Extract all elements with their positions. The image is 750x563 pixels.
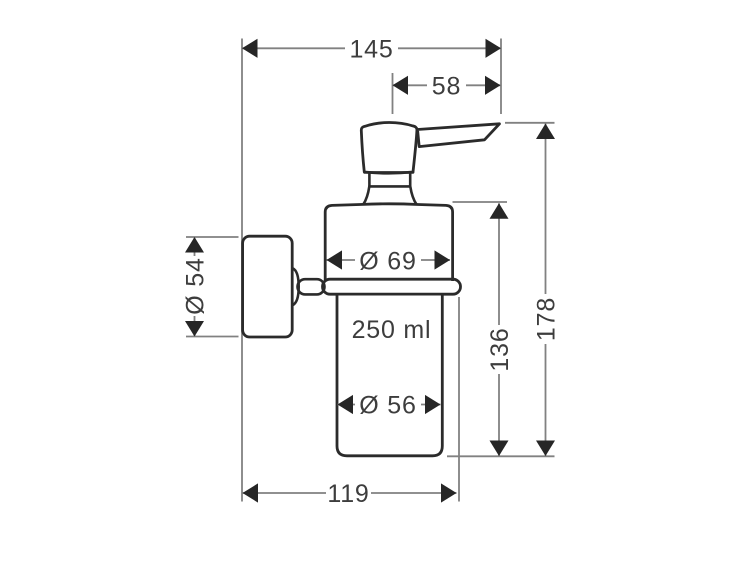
extension line plate top horizontal bbox=[186, 236, 239, 238]
holder ring bbox=[323, 279, 461, 294]
svg-text:58: 58 bbox=[432, 72, 461, 100]
extension line plate bottom horizontal bbox=[186, 336, 239, 338]
svg-text:178: 178 bbox=[533, 297, 561, 341]
pump neck flare bbox=[363, 187, 416, 205]
dimension 178 bbox=[533, 124, 561, 457]
escutcheon bulge bbox=[293, 268, 299, 305]
dimension diameter 69 bbox=[327, 248, 451, 276]
svg-text:Ø 69: Ø 69 bbox=[359, 248, 416, 276]
bottle shoulder bbox=[325, 204, 452, 281]
svg-text:Ø 56: Ø 56 bbox=[359, 392, 416, 420]
dimension 58 bbox=[393, 72, 501, 100]
pump cap bbox=[361, 122, 417, 173]
svg-text:145: 145 bbox=[349, 35, 393, 63]
dimension diameter 54 bbox=[182, 237, 210, 337]
svg-text:136: 136 bbox=[486, 327, 514, 371]
extension line right vertical above spout tip bbox=[500, 39, 502, 115]
svg-text:119: 119 bbox=[327, 480, 369, 508]
dimension 119 bbox=[243, 480, 457, 508]
svg-text:250 ml: 250 ml bbox=[352, 316, 432, 344]
extension line shoulder top horizontal bbox=[453, 201, 508, 203]
extension line bottle bottom horizontal bbox=[447, 455, 555, 457]
extension line pump centre vertical bbox=[392, 73, 394, 114]
glass bottle bbox=[337, 296, 442, 456]
extension line ring front vertical bbox=[458, 297, 460, 502]
extension line spout tip horizontal bbox=[505, 122, 555, 124]
pump spout bbox=[418, 124, 500, 147]
dimension 145 bbox=[242, 35, 501, 63]
svg-text:Ø 54: Ø 54 bbox=[182, 257, 210, 314]
pump neck band bbox=[365, 172, 414, 186]
dimension diameter 56 bbox=[338, 392, 441, 420]
dimension 136 bbox=[486, 203, 514, 456]
extension line left vertical (wall plane) bbox=[241, 39, 243, 502]
connector arm bbox=[298, 279, 325, 294]
wall plate bbox=[243, 236, 293, 337]
